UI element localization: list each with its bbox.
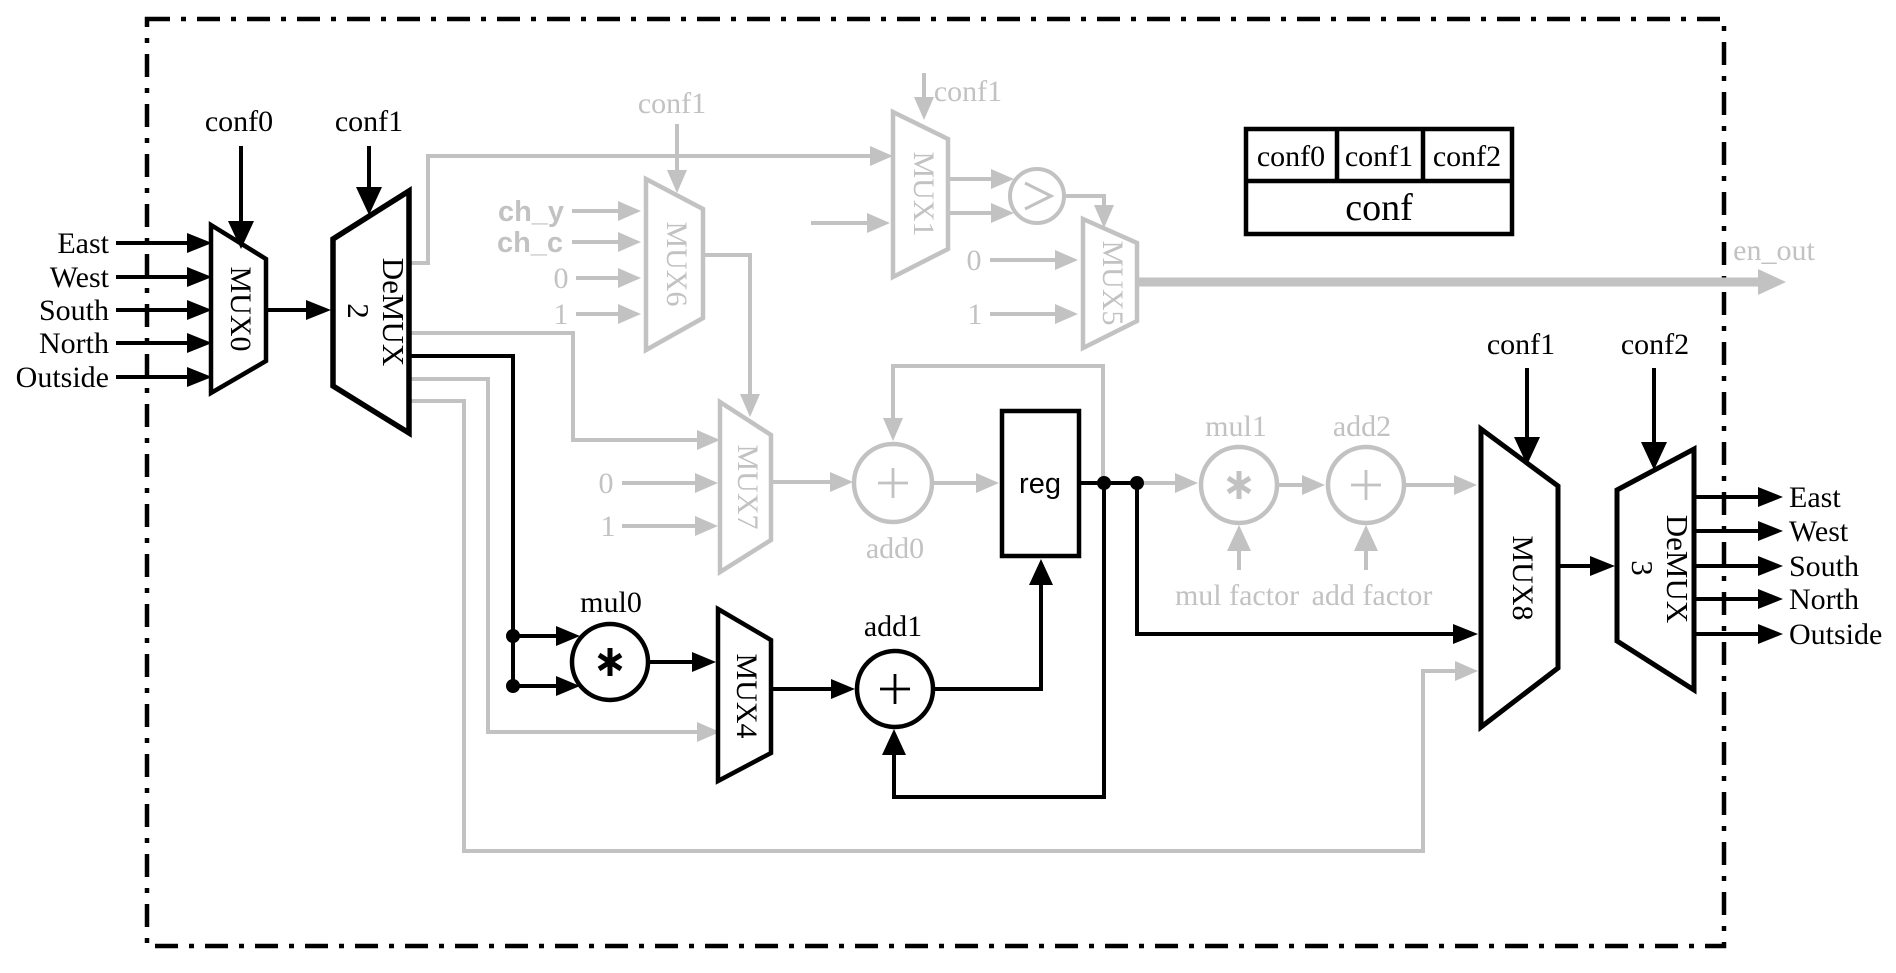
output East wire	[1694, 495, 1759, 499]
svg-text:MUX7: MUX7	[731, 444, 764, 529]
conf table	[1246, 129, 1512, 234]
wire: MUX0 to DeMUX2	[266, 308, 306, 312]
wire: reg output to MUX8 middle input	[1137, 483, 1453, 634]
svg-text:ch_c: ch_c	[497, 227, 563, 259]
svg-text:East: East	[57, 227, 109, 260]
wire: MUX1 upper output to comparator	[948, 177, 992, 181]
svg-text:reg: reg	[1019, 468, 1061, 500]
mux MUX7 (gray)	[720, 402, 771, 572]
svg-text:conf0: conf0	[1257, 140, 1325, 173]
svg-text:West: West	[1789, 515, 1849, 548]
svg-text:conf1: conf1	[1345, 140, 1413, 173]
junction dot	[1097, 476, 1111, 490]
svg-text:South: South	[1789, 550, 1859, 583]
wire West into MUX0	[116, 275, 189, 279]
svg-text:conf1: conf1	[335, 105, 403, 138]
svg-text:mul0: mul0	[580, 586, 642, 619]
svg-text:conf: conf	[1345, 187, 1413, 229]
svg-text:add1: add1	[864, 610, 922, 643]
svg-text:South: South	[39, 294, 109, 327]
svg-text:0: 0	[599, 467, 614, 500]
wire East into MUX0	[116, 241, 189, 245]
svg-text:0: 0	[554, 262, 569, 295]
wire: MUX5 output to en_out (gray thick)	[1137, 278, 1762, 287]
wire: DeMUX2 to MUX1 (gray)	[409, 156, 871, 263]
conf1 arrow into MUX1 (gray)	[922, 73, 926, 99]
svg-text:add2: add2	[1333, 410, 1391, 443]
svg-text:mul1: mul1	[1205, 410, 1267, 443]
svg-text:West: West	[50, 261, 110, 294]
mux MUX4	[718, 609, 771, 781]
mux MUX1 (gray)	[893, 112, 948, 277]
wire: mul1 to add2 (gray)	[1277, 483, 1303, 487]
border frame (dash-dot)	[147, 19, 1724, 946]
wire ch_c into MUX6	[572, 240, 620, 244]
output Outside wire	[1694, 632, 1759, 636]
svg-text:MUX0: MUX0	[224, 266, 257, 351]
svg-text:ch_y: ch_y	[498, 196, 564, 228]
output North wire	[1694, 597, 1759, 601]
svg-text:MUX1: MUX1	[907, 151, 940, 236]
conf0 arrow into MUX0	[239, 146, 243, 224]
output West wire	[1694, 529, 1759, 533]
svg-text:mul factor: mul factor	[1175, 579, 1299, 612]
wire: reg output feedback down into add1	[894, 483, 1104, 797]
svg-text:1: 1	[554, 298, 569, 331]
svg-text:MUX4: MUX4	[730, 653, 763, 738]
wire: mul0 to MUX4	[648, 660, 694, 664]
svg-text:3: 3	[1625, 560, 1660, 576]
svg-text:DeMUX: DeMUX	[1660, 515, 1695, 624]
mux MUX0	[211, 225, 266, 393]
wire 0 into MUX7	[622, 481, 697, 485]
wire: MUX1 lower output to comparator	[948, 211, 992, 215]
multiplier mul1 (gray)	[1201, 447, 1277, 523]
mux MUX6 (gray)	[646, 179, 703, 350]
svg-text:conf1: conf1	[1487, 328, 1555, 361]
svg-text:1: 1	[968, 298, 983, 331]
demux DeMUX2	[333, 191, 409, 433]
wire South into MUX0	[116, 308, 189, 312]
wire: add factor into add2 (gray)	[1364, 548, 1368, 570]
junction dot	[506, 629, 520, 643]
wire: DeMUX2 bottom loop to MUX8 lower input (gray)	[409, 401, 1456, 851]
wire: MUX8 to DeMUX3	[1558, 564, 1590, 568]
junction dot	[1130, 476, 1144, 490]
svg-text:MUX6: MUX6	[660, 221, 693, 306]
adder add0 (gray)	[854, 444, 932, 522]
wire 1 into MUX5	[990, 312, 1057, 316]
conf1 arrow into MUX6 (gray)	[675, 124, 679, 174]
svg-text:0: 0	[967, 244, 982, 277]
svg-text:Outside: Outside	[1789, 618, 1882, 651]
wire: reg output (black segment)	[1079, 481, 1140, 485]
wire: DeMUX2 to MUX4 lower input (gray)	[409, 379, 698, 732]
svg-text:North: North	[1789, 583, 1859, 616]
wire: reg output feedback up into add0 (gray)	[893, 366, 1103, 483]
wire: DeMUX2 to MUX7 (gray)	[409, 333, 698, 440]
svg-text:1: 1	[601, 510, 616, 543]
wire Outside into MUX0	[116, 375, 189, 379]
wire 1 into MUX7	[622, 524, 697, 528]
svg-text:conf2: conf2	[1433, 140, 1501, 173]
conf1 arrow into DeMUX2	[367, 146, 371, 190]
mux MUX5 (gray)	[1083, 219, 1137, 348]
svg-text:East: East	[1789, 481, 1841, 514]
wire 0 into MUX6	[576, 276, 620, 280]
wire: comparator to MUX5 top (gray)	[1064, 196, 1104, 207]
svg-text:2: 2	[341, 303, 376, 319]
wire: DeMUX2 to mul0 (black, two branches)	[409, 356, 513, 686]
wire 1 into MUX6	[576, 312, 620, 316]
wire: MUX6 to MUX7 top (gray)	[703, 255, 750, 396]
register reg	[1002, 411, 1079, 556]
wire: reg output to mul1 (gray segment)	[1140, 481, 1177, 485]
svg-text:en_out: en_out	[1733, 234, 1815, 267]
wire 0 into MUX5	[990, 258, 1057, 262]
svg-text:DeMUX: DeMUX	[376, 258, 411, 367]
adder add2 (gray)	[1328, 447, 1404, 523]
wire: mul factor into mul1 (gray)	[1237, 548, 1241, 570]
svg-text:North: North	[39, 327, 109, 360]
wire North into MUX0	[116, 341, 189, 345]
conf1 arrow into MUX8	[1525, 368, 1529, 440]
wire: MUX4 to add1	[771, 687, 833, 691]
conf2 arrow into DeMUX3	[1652, 368, 1656, 445]
wire: add1 up into reg	[933, 584, 1041, 689]
comparator circle (gray)	[1010, 169, 1064, 223]
stub wire into MUX1 lower input (gray)	[811, 221, 868, 225]
svg-text:MUX5: MUX5	[1096, 240, 1129, 325]
svg-text:conf0: conf0	[205, 105, 273, 138]
svg-text:add0: add0	[866, 532, 924, 565]
output South wire	[1694, 564, 1759, 568]
wire: add2 to MUX8 (gray)	[1404, 483, 1455, 487]
svg-text:MUX8: MUX8	[1506, 535, 1539, 620]
junction dot	[506, 679, 520, 693]
svg-text:conf1: conf1	[638, 87, 706, 120]
svg-text:add factor: add factor	[1312, 579, 1433, 612]
wire: MUX7 to add0	[771, 480, 832, 484]
wire: add0 to reg (gray)	[932, 481, 978, 485]
wire ch_y into MUX6	[572, 209, 620, 213]
svg-text:conf2: conf2	[1621, 328, 1689, 361]
multiplier mul0	[572, 624, 648, 700]
adder add1	[857, 651, 933, 727]
svg-text:conf1: conf1	[934, 75, 1002, 108]
mux MUX8	[1481, 429, 1558, 727]
demux DeMUX3	[1617, 449, 1694, 690]
svg-text:Outside: Outside	[16, 361, 109, 394]
